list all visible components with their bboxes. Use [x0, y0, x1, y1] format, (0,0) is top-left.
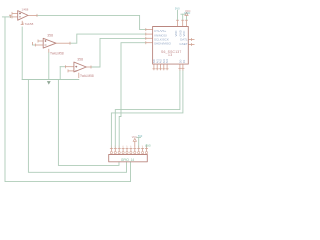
svg-text:Twk58: Twk58: [25, 22, 34, 26]
svg-text:TwkLM58: TwkLM58: [80, 74, 94, 78]
svg-text:D1: D1: [182, 59, 186, 63]
svg-text:GND: GND: [184, 11, 190, 15]
svg-text:VCC: VCC: [132, 136, 137, 139]
svg-text:DATL: DATL: [180, 37, 188, 41]
svg-text:5V0: 5V0: [138, 135, 143, 138]
svg-text:AI4: AI4: [165, 59, 169, 64]
svg-text:5V0: 5V0: [175, 7, 180, 11]
svg-text:13: 13: [168, 53, 173, 57]
svg-text:VCC: VCC: [182, 31, 186, 37]
svg-text:SHDN/MISO: SHDN/MISO: [154, 42, 172, 46]
svg-text:358: 358: [77, 58, 83, 62]
svg-text:58: 58: [25, 8, 29, 12]
svg-text:GSET: GSET: [179, 42, 187, 46]
svg-text:GPIO_14: GPIO_14: [121, 158, 135, 162]
svg-text:TwkLM58: TwkLM58: [50, 52, 64, 56]
svg-text:358: 358: [47, 33, 53, 37]
svg-text:GND: GND: [145, 145, 151, 148]
